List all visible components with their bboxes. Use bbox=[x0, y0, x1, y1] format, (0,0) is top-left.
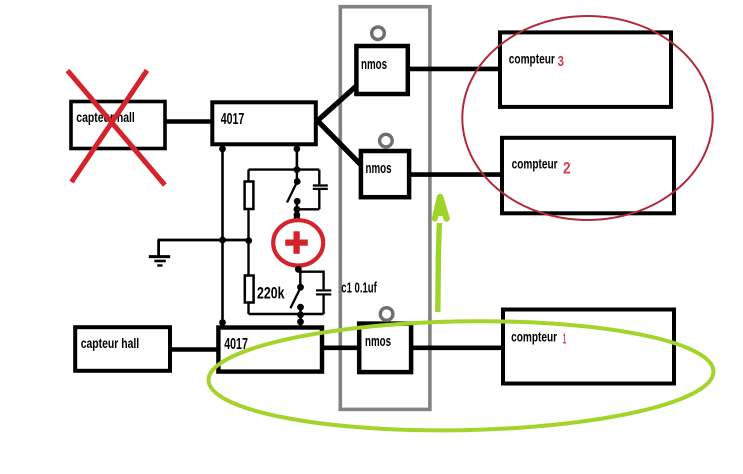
motor M1 (red circle with plus) bbox=[273, 215, 323, 272]
junction dot bbox=[294, 146, 301, 153]
svg-text:nmos: nmos bbox=[365, 333, 391, 350]
svg-text:220k: 220k bbox=[257, 283, 285, 302]
terminal pad above Q3 bbox=[380, 308, 393, 321]
svg-text:4017: 4017 bbox=[221, 111, 245, 128]
box compteur 2 bbox=[502, 138, 674, 214]
wire motor bottom to capacitor C1 bbox=[298, 272, 323, 290]
enclosure box (gray boundary) bbox=[340, 7, 430, 410]
ground bbox=[149, 240, 170, 266]
wire resistor R2 bottom lead bbox=[247, 303, 249, 315]
svg-text:2: 2 bbox=[563, 159, 571, 178]
junction dot bbox=[245, 237, 252, 244]
wire 4017 U3 to nmos Q1 (upper branch) bbox=[318, 86, 357, 120]
capacitor C2 bbox=[297, 170, 328, 210]
annotation green arrow bbox=[435, 196, 447, 312]
transistor nmos Q1 bbox=[356, 46, 407, 94]
svg-text:3: 3 bbox=[558, 54, 565, 70]
wire nmos Q3 to compteur 1 bbox=[412, 345, 504, 350]
resistor R2 220k bbox=[245, 276, 254, 303]
capacitor C1 0.1uf bbox=[316, 290, 331, 314]
wire vertical bus left (4017 U3 pin to 4017 U4 pin) bbox=[221, 146, 224, 327]
wire nmos Q1 to compteur 3 bbox=[408, 67, 501, 72]
svg-text:compteur: compteur bbox=[509, 51, 555, 67]
wire 4017 U3 pin drop to RC node bbox=[296, 146, 299, 170]
box compteur 3 bbox=[500, 32, 671, 107]
svg-text:nmos: nmos bbox=[366, 160, 392, 177]
wire resistor R2 top lead bbox=[247, 240, 249, 276]
annotation red X over capteur hall U2 bbox=[68, 70, 165, 185]
junction dot bbox=[219, 146, 226, 153]
annotation green ellipse around compteur 1 bbox=[208, 317, 715, 435]
svg-text:nmos: nmos bbox=[361, 56, 387, 73]
box compteur 1 bbox=[503, 310, 674, 384]
wire RC top rail bbox=[249, 168, 320, 170]
switch S1 bbox=[287, 170, 301, 219]
label 220k bbox=[257, 283, 285, 302]
svg-text:1: 1 bbox=[563, 330, 567, 347]
annotation red ellipse around compteur 3 and 2 bbox=[462, 16, 712, 220]
junction dot bbox=[294, 166, 301, 173]
wire capteur hall U2 to 4017 U3 bbox=[165, 119, 213, 124]
switch S2 bbox=[290, 269, 304, 327]
box capteur hall U2 (crossed out) bbox=[71, 102, 165, 149]
svg-text:c1 0.1uf: c1 0.1uf bbox=[341, 279, 377, 296]
wire resistor R1 bottom lead bbox=[247, 209, 249, 240]
wire capteur hall U5 to 4017 U4 bbox=[170, 347, 220, 352]
wire 4017 U3 to nmos Q2 (lower branch) bbox=[318, 121, 362, 166]
wire resistor R1 top lead bbox=[247, 170, 249, 182]
svg-text:capteur hall: capteur hall bbox=[81, 335, 140, 351]
wire 4017 U4 to nmos Q3 bbox=[321, 345, 359, 350]
junction dot bbox=[219, 237, 226, 244]
transistor nmos Q3 bbox=[359, 324, 411, 373]
label c1 0.1uf bbox=[341, 279, 377, 296]
junction dot bbox=[219, 319, 226, 326]
box 4017 U4 bbox=[218, 328, 322, 372]
wire bottom rail bbox=[249, 313, 324, 315]
terminal pad above Q1 bbox=[372, 27, 385, 40]
box 4017 U3 bbox=[212, 102, 315, 144]
svg-text:compteur: compteur bbox=[511, 329, 557, 345]
wire ground rail bbox=[158, 239, 251, 242]
svg-text:compteur: compteur bbox=[512, 156, 558, 172]
box capteur hall U5 bbox=[75, 327, 170, 371]
resistor R1 bbox=[245, 182, 254, 210]
terminal pad above Q2 bbox=[380, 134, 393, 147]
wire nmos Q2 to compteur 2 bbox=[410, 172, 503, 177]
transistor nmos Q2 bbox=[361, 151, 409, 197]
